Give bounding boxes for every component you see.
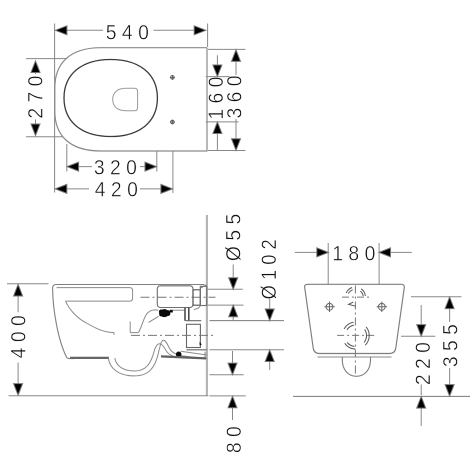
rear view body	[305, 284, 405, 353]
svg-text:180: 180	[332, 241, 380, 265]
dimension 360	[208, 49, 246, 150]
dimension 355	[411, 297, 462, 386]
svg-text:80: 80	[222, 421, 246, 453]
floor line right	[293, 395, 470, 397]
side view outlet joint	[176, 352, 182, 358]
side view flush pipe diagonal	[149, 316, 159, 322]
extension line trap bottom	[209, 374, 243, 376]
side view outer profile	[53, 285, 205, 359]
top view screw hole upper	[170, 75, 175, 80]
svg-text:Ø102: Ø102	[257, 234, 281, 299]
extension line pipe102 top	[210, 320, 285, 322]
side view drain box top	[186, 320, 202, 322]
side view bottom edge front segment	[70, 357, 109, 359]
side view bowl back s-curve	[139, 310, 159, 332]
rear view outlet arc pair right	[364, 327, 369, 345]
dimension 400	[7, 284, 49, 384]
dimension 270	[26, 59, 67, 137]
top view inner bowl rim	[64, 60, 157, 137]
side view bowl interior curve	[66, 301, 115, 335]
side view drain box	[187, 324, 201, 347]
side view outlet pipe	[181, 351, 207, 358]
extension line pipe55 bottom	[208, 304, 244, 306]
side view fitting elbow	[194, 305, 201, 309]
floor extension line left	[9, 395, 209, 397]
dimension 320	[67, 144, 157, 172]
dimension 180	[295, 243, 412, 284]
svg-text:220: 220	[411, 337, 435, 385]
svg-text:360: 360	[222, 70, 246, 118]
side view supply centerline	[141, 296, 216, 298]
rear view base line	[318, 356, 392, 358]
svg-text:400: 400	[7, 310, 31, 358]
side view wall fitting connector	[193, 290, 200, 305]
rear view supply arc pair upper-left	[346, 288, 353, 294]
side view clamp small part	[170, 310, 173, 313]
svg-text:420: 420	[95, 178, 143, 202]
side view drain centerline	[131, 334, 216, 336]
extension line pipe55 top	[208, 288, 243, 290]
dimension 160	[206, 55, 239, 150]
svg-text:Ø55: Ø55	[222, 208, 246, 261]
svg-text:355: 355	[438, 319, 462, 367]
top view screw hole lower	[170, 120, 175, 125]
svg-text:270: 270	[24, 70, 48, 118]
rear view vertical centerline	[354, 286, 356, 377]
side view bottom edge rear segment	[161, 356, 206, 358]
extension line pipe102 bottom	[210, 349, 285, 351]
top view outer outline	[55, 48, 207, 151]
side view bowl back step	[130, 322, 138, 333]
rear view trap bulge	[342, 357, 370, 376]
side view flush clamp black blob	[159, 309, 170, 317]
side view wall fitting chamfer	[200, 285, 206, 289]
top view drain outlet	[113, 88, 138, 110]
svg-text:540: 540	[106, 21, 154, 45]
rear view screw hole right	[377, 302, 387, 312]
side view wall fitting plate	[200, 286, 206, 305]
extension line floor right of wall	[209, 395, 245, 397]
rear view outlet arc pair upper-left	[344, 322, 354, 330]
side view drain box bottom	[187, 349, 207, 351]
rear view outlet horizontal centerline	[337, 334, 374, 336]
svg-text:320: 320	[94, 156, 142, 180]
side view wall line	[206, 215, 208, 396]
side view pipe ledge	[173, 309, 185, 311]
rear view supply flow arrow	[349, 302, 356, 306]
rear view outlet arc pair lower-left	[345, 343, 356, 350]
dimension diameter 55	[232, 265, 234, 321]
dimension diameter 102	[269, 297, 271, 371]
side view vertical pipe	[185, 308, 189, 321]
dimension 220	[401, 305, 435, 426]
side view drain box clip	[200, 342, 202, 346]
dimension 80	[232, 351, 234, 420]
rear view supply arc pair right	[360, 289, 365, 296]
side view trap outer curve	[108, 340, 176, 376]
side view supply cylinder	[157, 286, 193, 308]
rear view supply horizontal centerline	[342, 296, 369, 298]
side view trap inner curve	[115, 344, 173, 371]
side view rim slot	[57, 288, 133, 302]
dimension 540	[55, 24, 208, 193]
rear view screw hole left	[324, 302, 334, 312]
dimension 420	[56, 152, 173, 194]
